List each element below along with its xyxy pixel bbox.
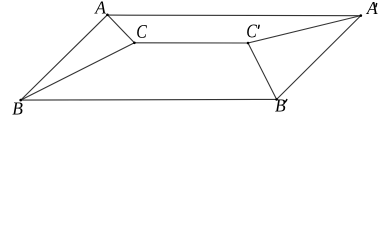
svg-text:A: A (94, 0, 106, 18)
svg-text:B: B (12, 98, 23, 118)
svg-text:A: A (366, 0, 378, 18)
svg-text:C: C (246, 21, 257, 42)
svg-text:B: B (275, 96, 286, 116)
svg-text:C: C (136, 22, 147, 43)
